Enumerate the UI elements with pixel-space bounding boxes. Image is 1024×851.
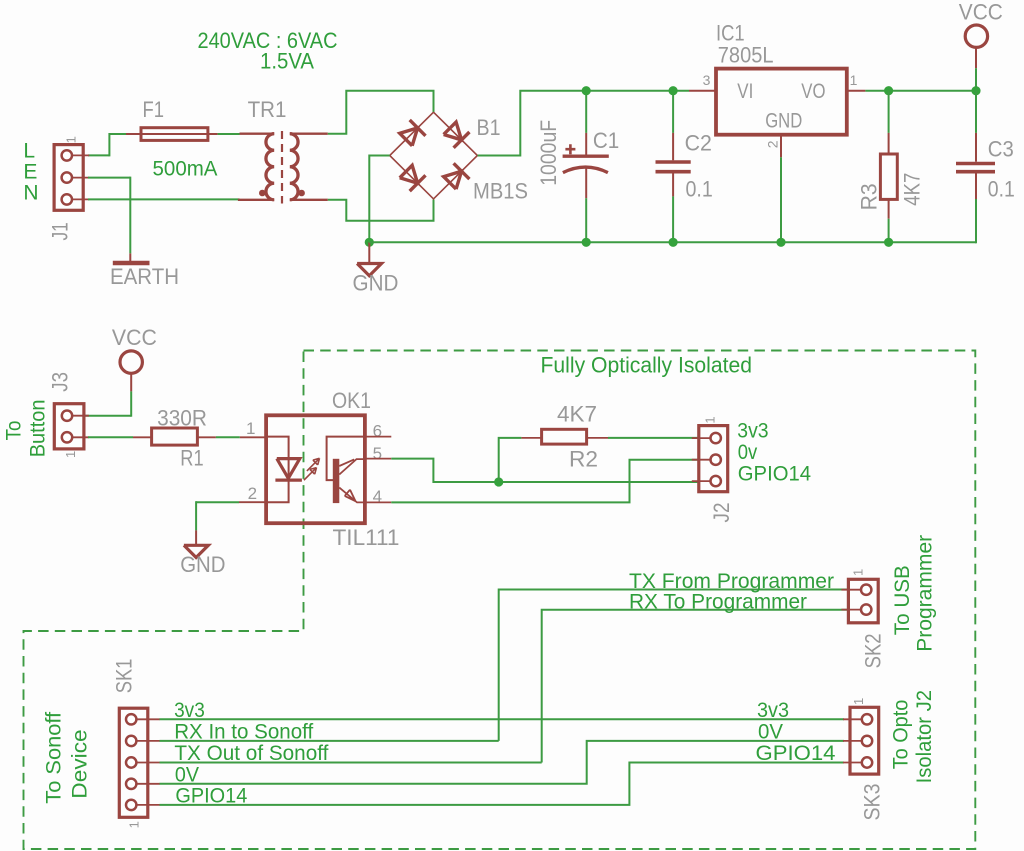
svg-text:Isolator J2: Isolator J2 [913,690,936,783]
svg-text:SK2: SK2 [861,633,886,668]
svg-text:4K7: 4K7 [557,402,597,427]
opto-isolator OK1 TIL111 [266,415,365,523]
earth symbol [129,253,131,261]
svg-text:C2: C2 [685,131,712,156]
svg-text:0.1: 0.1 [686,176,713,201]
svg-text:3v3: 3v3 [174,699,205,722]
bridge rectifier B1 [390,112,478,199]
svg-text:500mA: 500mA [153,158,218,181]
regulator IC1 7805L [689,90,716,92]
svg-text:J2: J2 [709,503,734,523]
svg-text:TX Out of Sonoff: TX Out of Sonoff [174,742,328,765]
capacitor C2 [672,90,674,133]
svg-text:Button: Button [27,400,50,458]
svg-text:To: To [2,421,25,441]
svg-text:4K7: 4K7 [900,173,925,206]
svg-text:Device: Device [69,729,92,798]
svg-text:J3: J3 [48,372,73,392]
svg-text:3v3: 3v3 [757,699,789,722]
svg-text:Fully Optically Isolated: Fully Optically Isolated [541,353,753,378]
wire RX In to Sonoff [160,740,499,742]
capacitor C1 [585,90,587,133]
isolation boundary dashed [24,351,976,850]
svg-text:To Sonoff: To Sonoff [43,712,66,804]
capacitor C3 [975,91,977,133]
wire [328,91,434,134]
svg-text:1: 1 [851,698,866,705]
svg-text:1: 1 [63,451,78,458]
wire RX To Programmer [542,610,849,763]
connector SK1 [119,708,148,817]
svg-text:N: N [23,182,38,205]
wire [88,436,133,438]
resistor R1 330R [133,436,152,438]
svg-text:VI: VI [737,80,753,103]
svg-text:OK1: OK1 [332,388,371,413]
power VCC [965,25,987,47]
connector J3 [54,404,84,449]
wire [129,177,131,254]
svg-text:1: 1 [64,136,79,143]
svg-text:6: 6 [373,422,382,441]
power VCC J3 [120,351,142,373]
svg-text:E: E [23,160,37,183]
wire [88,154,109,156]
svg-text:To USB: To USB [891,565,914,635]
svg-text:1.5VA: 1.5VA [260,49,314,74]
svg-text:1: 1 [127,821,142,828]
svg-text:J1: J1 [48,222,73,240]
svg-text:C1: C1 [593,128,619,153]
svg-text:4: 4 [373,487,382,506]
wire TX From Programmer [499,590,849,741]
svg-text:Programmer: Programmer [914,535,937,652]
svg-text:0V: 0V [175,763,199,786]
wire TX Out of Sonoff [160,762,542,764]
svg-text:GND: GND [180,552,225,577]
junction [365,238,374,247]
svg-text:R3: R3 [857,183,882,210]
svg-text:0v: 0v [738,441,758,464]
svg-text:SK1: SK1 [112,659,137,694]
fuse F1 [126,133,141,135]
wire [218,133,240,135]
svg-text:2: 2 [765,140,781,148]
wire [88,177,130,179]
svg-text:3v3: 3v3 [737,420,768,443]
transformer TR1 [240,132,275,134]
svg-text:0V: 0V [758,720,783,743]
svg-text:EARTH: EARTH [110,264,179,289]
svg-text:VO: VO [801,80,825,103]
wire R2 branch [499,438,522,482]
wire [478,91,689,156]
svg-text:5: 5 [373,444,382,463]
svg-text:7805L: 7805L [718,43,774,68]
ground GND [368,242,370,263]
wire pin4 [365,501,391,503]
svg-text:1: 1 [703,416,718,423]
svg-text:1000uF: 1000uF [536,120,561,186]
svg-text:330R: 330R [157,405,207,430]
svg-text:To Opto: To Opto [890,700,913,770]
wire GPIO14 [160,763,845,805]
svg-text:GND: GND [765,110,802,133]
svg-text:L: L [23,139,35,162]
wire [216,436,240,438]
wire [780,135,782,158]
wire [109,134,126,156]
svg-text:MB1S: MB1S [473,179,528,204]
svg-text:VCC: VCC [112,325,157,350]
svg-text:SK3: SK3 [860,784,885,821]
svg-text:C3: C3 [988,136,1014,161]
wire GND rail [369,241,976,243]
svg-text:GPIO14: GPIO14 [738,462,812,485]
svg-text:VCC: VCC [959,0,1003,24]
wire pin5 [365,458,391,460]
wire 3v3 [160,718,845,720]
wire [239,501,266,503]
wire [847,90,866,92]
svg-text:1: 1 [850,72,858,88]
svg-text:2: 2 [248,484,257,503]
svg-text:0.1: 0.1 [988,176,1015,201]
ground GND OK1 [195,530,197,544]
svg-text:GPIO14: GPIO14 [175,784,247,807]
svg-text:IC1: IC1 [716,20,745,45]
junction [494,477,503,486]
connector SK2 [848,579,878,623]
svg-text:B1: B1 [477,115,501,140]
wire [84,415,131,417]
svg-text:R1: R1 [180,446,203,471]
svg-text:GND: GND [353,270,399,295]
svg-text:TIL111: TIL111 [333,525,400,550]
svg-text:TR1: TR1 [248,97,287,122]
resistor R2 4K7 [521,437,541,439]
wire [88,198,240,200]
connector J2 [699,426,728,492]
svg-text:R2: R2 [569,446,598,471]
svg-text:RX To Programmer: RX To Programmer [629,590,807,613]
svg-text:GPIO14: GPIO14 [756,742,836,765]
connector SK3 [850,707,879,774]
svg-text:3: 3 [703,72,711,88]
connector J1 [54,145,83,211]
svg-text:F1: F1 [143,97,165,122]
svg-text:RX In to Sonoff: RX In to Sonoff [174,720,313,743]
svg-text:1: 1 [851,569,866,576]
svg-text:1: 1 [246,419,255,438]
wire [328,200,434,221]
resistor R3 [884,86,893,95]
wire 0V [160,741,845,784]
wire [369,156,389,243]
pin 6 stub [365,436,391,438]
